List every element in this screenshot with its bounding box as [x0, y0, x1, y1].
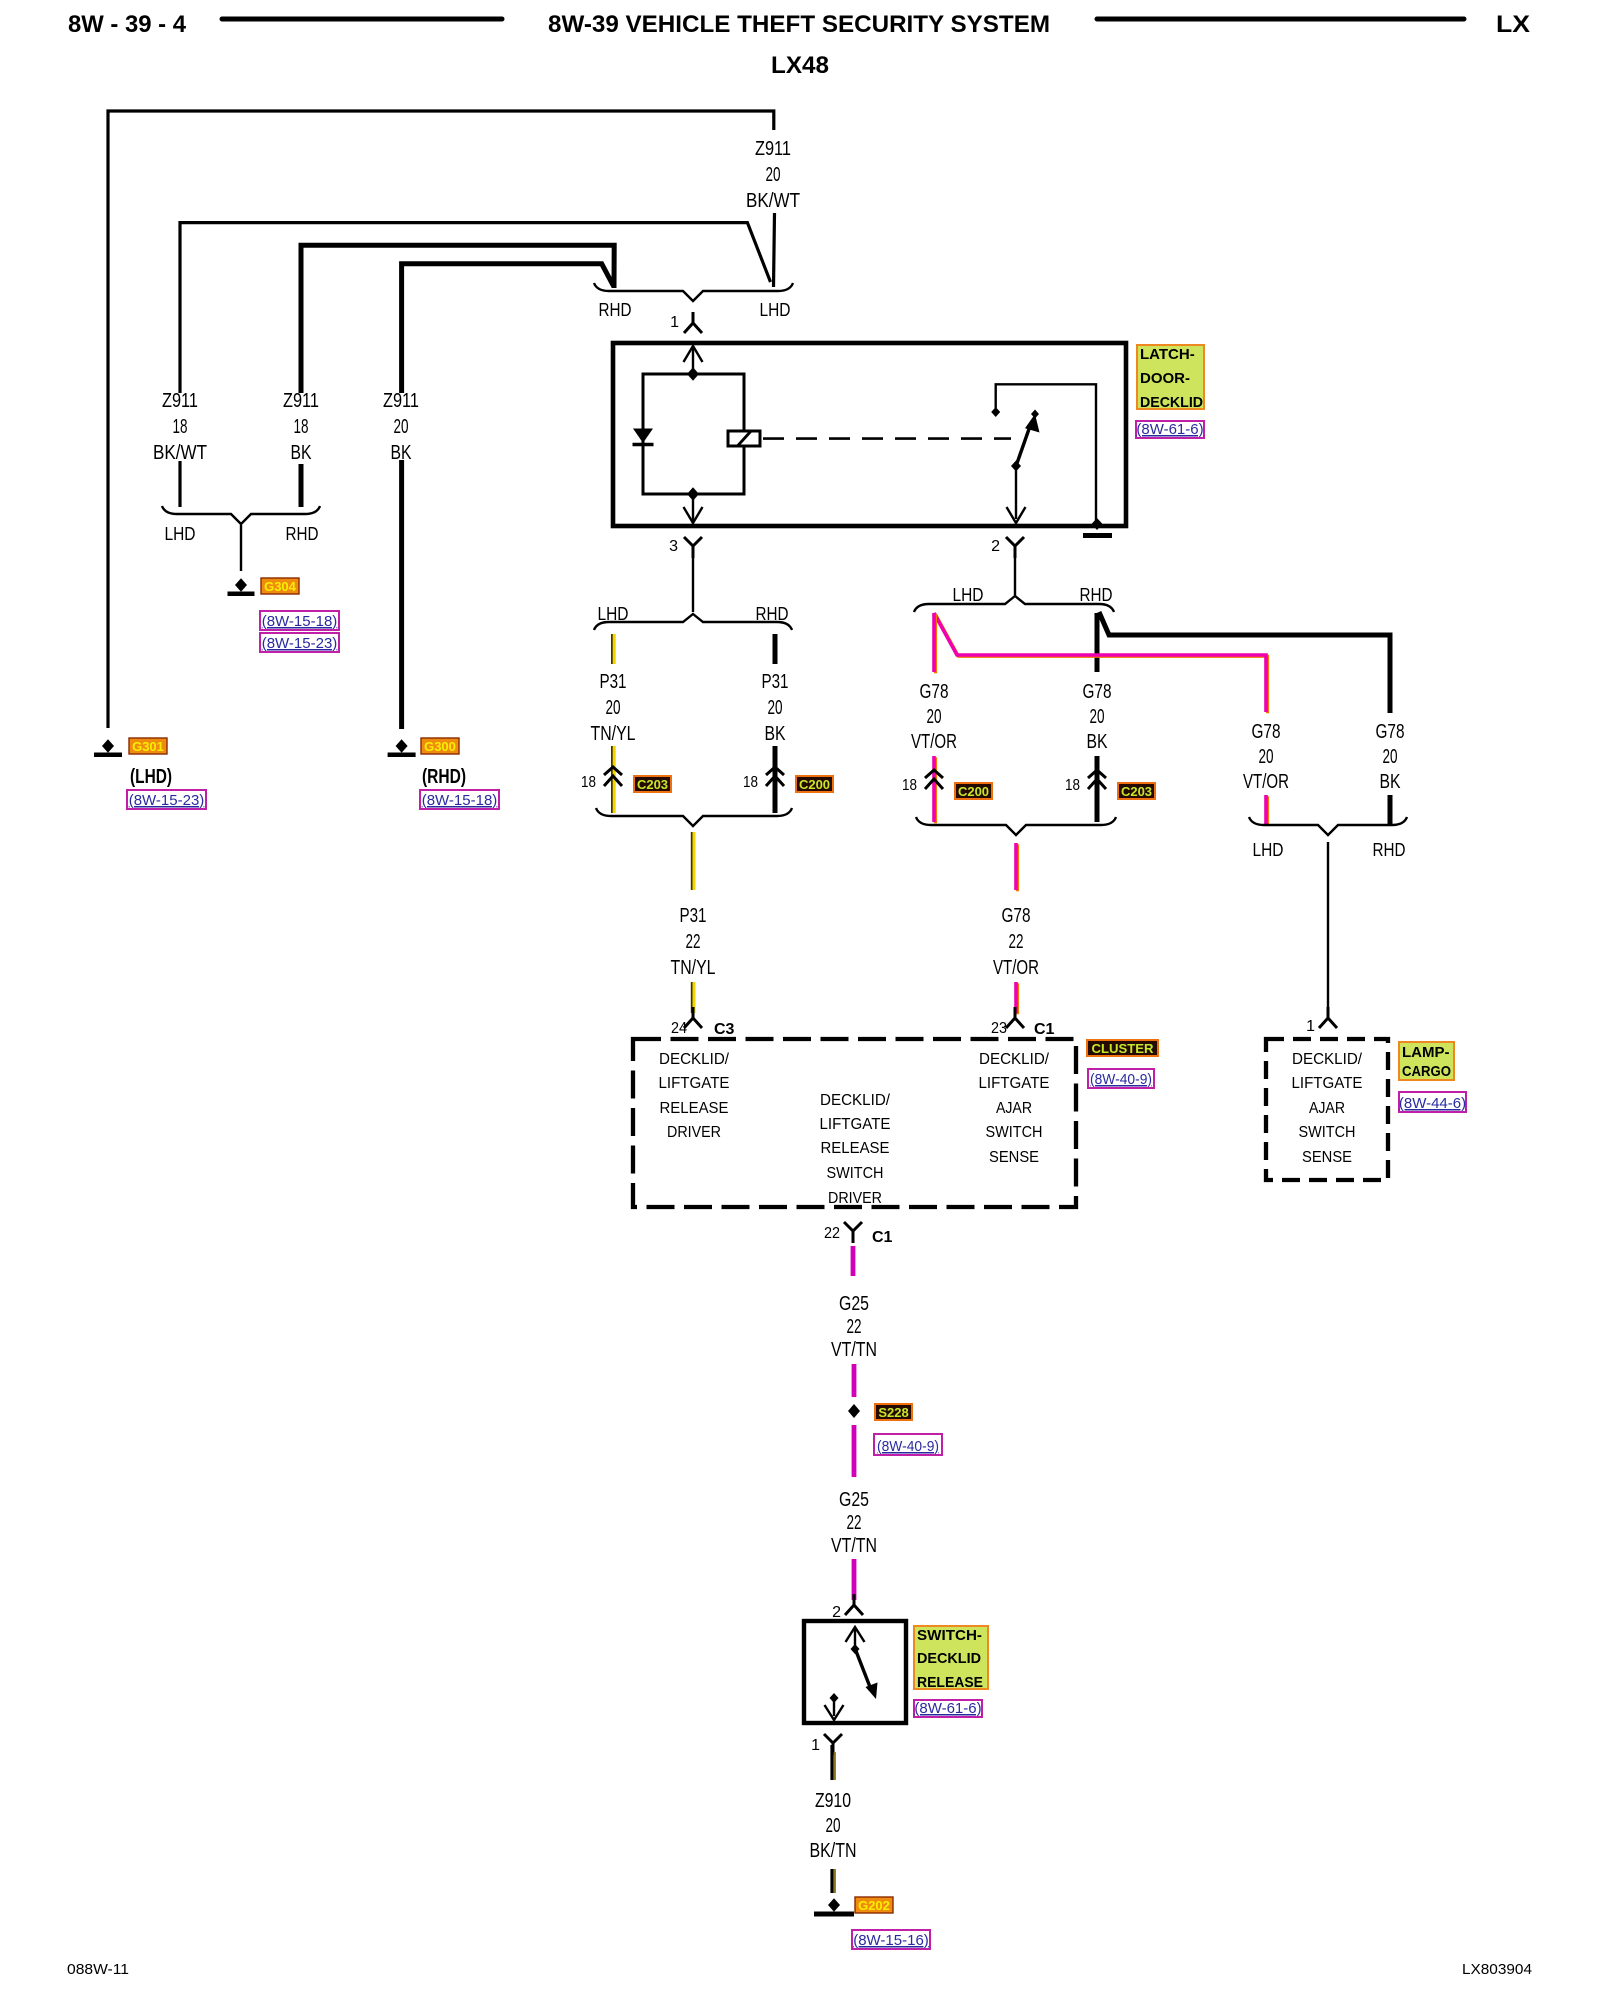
- svg-text:RELEASE: RELEASE: [917, 1674, 983, 1691]
- pin 23 connector C1 of cluster: [1006, 1007, 1024, 1028]
- diode (clamp) on loop left edge: [633, 429, 654, 445]
- svg-text:1: 1: [670, 314, 679, 331]
- bracket LHD/RHD split from pin 2: [914, 596, 1114, 612]
- svg-text:RELEASE: RELEASE: [660, 1100, 729, 1117]
- svg-text:G78: G78: [920, 681, 949, 703]
- svg-text:DECKLID/: DECKLID/: [820, 1092, 891, 1109]
- svg-text:P31: P31: [680, 905, 707, 927]
- wire G78 20 VT/OR stub to lamp bracket: [1266, 795, 1268, 825]
- svg-text:RHD: RHD: [1373, 840, 1406, 860]
- svg-text:Z911: Z911: [383, 390, 419, 412]
- relay switch movable arm: [1016, 410, 1040, 467]
- svg-text:20: 20: [1383, 746, 1398, 768]
- ref link 8W-15-18 (G304): [260, 611, 339, 630]
- wire G25 22 VT/TN segment 3: [852, 1425, 857, 1477]
- ref link 8W-15-23 (G304): [260, 633, 339, 652]
- svg-text:8W - 39 - 4: 8W - 39 - 4: [68, 11, 187, 38]
- svg-text:SENSE: SENSE: [989, 1149, 1039, 1166]
- in-line connector C203 chevron (BK): [1088, 770, 1106, 789]
- ref link 8W-44-6 (lamp): [1399, 1092, 1466, 1112]
- svg-text:BK: BK: [1380, 771, 1402, 793]
- svg-text:G25: G25: [839, 1293, 869, 1315]
- in-line connector C203 chevron (TN/YL): [604, 767, 622, 786]
- svg-text:(8W-15-23): (8W-15-23): [129, 792, 205, 809]
- svg-text:VT/TN: VT/TN: [831, 1339, 877, 1361]
- wire label G25 22 VT/TN (upper): [831, 1293, 877, 1361]
- switch SWITCH-DECKLID-RELEASE box: [804, 1621, 906, 1723]
- svg-text:RHD: RHD: [1080, 585, 1113, 605]
- svg-text:(8W-40-9): (8W-40-9): [1090, 1071, 1152, 1088]
- svg-text:Z911: Z911: [755, 138, 791, 160]
- svg-text:Z910: Z910: [815, 1790, 851, 1812]
- svg-text:(8W-15-18): (8W-15-18): [262, 613, 338, 630]
- pin 22 connector C1 below cluster: [844, 1222, 862, 1243]
- wire label G78 20 BK (lamp RHD): [1376, 721, 1405, 793]
- bracket merge LHD/RHD to G304: [162, 506, 320, 524]
- svg-text:SENSE: SENSE: [1302, 1149, 1352, 1166]
- wire label Z911 18 BK/WT (left column): [153, 390, 207, 464]
- svg-text:AJAR: AJAR: [1309, 1100, 1345, 1117]
- svg-text:DECKLID: DECKLID: [917, 1650, 981, 1667]
- svg-text:G78: G78: [1376, 721, 1405, 743]
- ref link 8W-15-16 (G202): [852, 1930, 930, 1949]
- splice S228: [848, 1404, 860, 1418]
- ref link 8W-61-6 (switch): [914, 1700, 982, 1717]
- relay pin3 internal down arrow: [684, 494, 703, 523]
- svg-text:TN/YL: TN/YL: [591, 723, 636, 745]
- svg-text:VT/OR: VT/OR: [1243, 771, 1289, 793]
- svg-text:C1: C1: [1034, 1021, 1055, 1038]
- wire G78 20 BK stub to lamp bracket: [1388, 795, 1393, 824]
- wire Z911 20 BK RHD (to G300) horizontal: [402, 264, 614, 393]
- connector label C200: [796, 776, 833, 792]
- svg-text:RHD: RHD: [756, 604, 789, 624]
- svg-text:C200: C200: [958, 784, 989, 799]
- wire label P31 20 BK: [762, 671, 789, 745]
- svg-text:LHD: LHD: [165, 524, 196, 544]
- svg-text:18: 18: [581, 774, 596, 791]
- ground label G202: [855, 1897, 893, 1913]
- svg-text:G202: G202: [858, 1898, 890, 1913]
- svg-text:SWITCH: SWITCH: [1299, 1124, 1356, 1141]
- svg-text:P31: P31: [762, 671, 789, 693]
- wire Z911 18 BK RHD (to G304) horizontal: [301, 245, 614, 393]
- relay coil/diode loop rectangle: [643, 374, 744, 494]
- wire Z910 20 BK/TN lower segment: [832, 1869, 835, 1893]
- svg-text:24: 24: [671, 1020, 687, 1037]
- svg-text:(8W-15-18): (8W-15-18): [422, 792, 498, 809]
- svg-text:DOOR-: DOOR-: [1140, 370, 1190, 387]
- svg-text:LHD: LHD: [598, 604, 629, 624]
- svg-text:3: 3: [669, 538, 678, 555]
- relay LATCH-DOOR-DECKLID box: [613, 343, 1126, 526]
- relay case ground bar: [1083, 533, 1112, 538]
- svg-text:20: 20: [826, 1815, 841, 1837]
- cargo lamp dashed box: [1266, 1039, 1388, 1180]
- svg-text:1: 1: [811, 1737, 820, 1754]
- svg-text:SWITCH-: SWITCH-: [917, 1627, 982, 1644]
- wire label P31 22 TN/YL: [671, 905, 716, 979]
- relay pin1 internal up arrow: [684, 346, 703, 374]
- wire Z911 20 BK/WT LHD (to G301) - top horizontal and left vertical: [108, 111, 774, 728]
- wire G25 22 VT/TN segment 1: [851, 1246, 856, 1276]
- svg-text:23: 23: [991, 1020, 1007, 1037]
- pin 1 connector of cargo lamp: [1319, 1007, 1337, 1028]
- cluster text decklid/liftgate ajar switch sense: [979, 1051, 1050, 1166]
- svg-text:20: 20: [1259, 746, 1274, 768]
- svg-text:(8W-61-6): (8W-61-6): [1136, 421, 1203, 438]
- svg-text:G304: G304: [264, 579, 297, 594]
- pin 3 connector of relay: [684, 537, 702, 558]
- svg-text:(RHD): (RHD): [422, 766, 466, 788]
- ground label G301: [129, 738, 167, 754]
- ground G300: [388, 739, 416, 757]
- cluster text decklid/liftgate release driver: [659, 1051, 730, 1141]
- svg-text:BK: BK: [1087, 731, 1109, 753]
- svg-text:G25: G25: [839, 1489, 869, 1511]
- connector label C200 (center): [955, 783, 992, 799]
- svg-text:RHD: RHD: [286, 524, 319, 544]
- bracket merge G78 wires to cluster: [916, 817, 1116, 835]
- component label LATCH-DOOR-DECKLID: [1137, 345, 1204, 411]
- pin 2 connector of decklid release switch: [845, 1594, 863, 1615]
- cluster text decklid/liftgate release switch driver: [820, 1092, 891, 1207]
- wire G78 20 VT/OR LHD branch: [934, 613, 1268, 713]
- svg-text:LIFTGATE: LIFTGATE: [1292, 1075, 1363, 1092]
- svg-text:20: 20: [766, 164, 781, 186]
- wire P31 20 TN/YL stub (LHD): [612, 634, 614, 664]
- wire pin3 to split bracket: [692, 558, 694, 612]
- svg-text:P31: P31: [600, 671, 627, 693]
- svg-text:DECKLID: DECKLID: [1140, 394, 1203, 411]
- svg-text:DRIVER: DRIVER: [667, 1124, 721, 1141]
- in-line connector C200 chevron (VT/OR): [925, 770, 943, 789]
- svg-text:(8W-15-23): (8W-15-23): [262, 635, 338, 652]
- wire label G78 20 VT/OR (lamp LHD): [1243, 721, 1289, 793]
- bracket RHD/LHD into relay pin 1: [594, 283, 793, 301]
- svg-text:BK: BK: [765, 723, 787, 745]
- svg-text:TN/YL: TN/YL: [671, 957, 716, 979]
- wire P31 20 TN/YL lower segment: [612, 746, 614, 813]
- ref link 8W-40-9 (cluster): [1088, 1069, 1154, 1088]
- ref link 8W-61-6 (latch): [1136, 421, 1204, 438]
- wire G78 20 BK segment to C203: [1095, 756, 1100, 822]
- svg-text:22: 22: [824, 1225, 840, 1242]
- wire label G78 22 VT/OR: [993, 905, 1039, 979]
- svg-text:1: 1: [1306, 1018, 1315, 1035]
- ref link 8W-15-18 (G300): [420, 790, 499, 809]
- svg-text:18: 18: [1065, 777, 1080, 794]
- svg-text:18: 18: [743, 774, 758, 791]
- wire Z911 18 BK/WT stub to G304 bracket: [178, 461, 181, 507]
- svg-text:BK/WT: BK/WT: [153, 442, 207, 464]
- svg-text:LIFTGATE: LIFTGATE: [659, 1075, 730, 1092]
- switch upper contact dot: [851, 1644, 860, 1654]
- relay internal junction top: [687, 367, 699, 381]
- svg-text:(8W-61-6): (8W-61-6): [914, 1700, 981, 1717]
- svg-text:20: 20: [768, 697, 783, 719]
- pin 24 connector C3 of cluster: [684, 1007, 702, 1028]
- wire G78 20 BK RHD branch (thick black): [1099, 612, 1390, 713]
- svg-text:VT/OR: VT/OR: [993, 957, 1039, 979]
- svg-text:20: 20: [606, 697, 621, 719]
- svg-text:S228: S228: [878, 1405, 908, 1420]
- svg-text:LX48: LX48: [771, 52, 829, 79]
- svg-text:(8W-40-9): (8W-40-9): [877, 1438, 939, 1455]
- svg-text:22: 22: [1009, 931, 1024, 953]
- svg-text:(8W-15-16): (8W-15-16): [853, 1932, 929, 1949]
- svg-text:22: 22: [847, 1512, 862, 1534]
- pin 2 connector of relay: [1006, 537, 1024, 558]
- relay coil symbol: [728, 431, 760, 447]
- svg-text:SWITCH: SWITCH: [827, 1165, 884, 1182]
- wire label Z910 20 BK/TN: [810, 1790, 857, 1862]
- svg-text:20: 20: [927, 706, 942, 728]
- wire Z911 20 BK vertical to G300: [399, 460, 404, 729]
- svg-text:DECKLID/: DECKLID/: [979, 1051, 1050, 1068]
- svg-text:LIFTGATE: LIFTGATE: [820, 1116, 891, 1133]
- wire G78 20 VT/OR center vertical: [934, 613, 936, 673]
- svg-text:LHD: LHD: [953, 585, 984, 605]
- relay internal junction bottom: [687, 487, 699, 501]
- svg-text:AJAR: AJAR: [996, 1100, 1032, 1117]
- relay actuation dashed link: [763, 437, 1011, 440]
- wire G25 22 VT/TN segment 4: [852, 1559, 857, 1600]
- bracket merge LHD/RHD to lamp: [1249, 817, 1407, 835]
- svg-text:(8W-44-6): (8W-44-6): [1399, 1095, 1466, 1112]
- ground G304: [228, 578, 255, 596]
- svg-text:DECKLID/: DECKLID/: [1292, 1051, 1363, 1068]
- wire G304 bracket stem: [240, 525, 242, 571]
- svg-text:C3: C3: [714, 1021, 735, 1038]
- svg-text:BK: BK: [291, 442, 313, 464]
- splice label S228: [875, 1404, 912, 1420]
- svg-text:G78: G78: [1002, 905, 1031, 927]
- svg-text:8W-39 VEHICLE THEFT SECURITY S: 8W-39 VEHICLE THEFT SECURITY SYSTEM: [548, 11, 1050, 38]
- wire lamp bracket to pin 1: [1327, 842, 1329, 1013]
- wire pin2 to split bracket: [1014, 558, 1016, 596]
- svg-text:CLUSTER: CLUSTER: [1092, 1041, 1155, 1056]
- svg-text:G301: G301: [132, 739, 164, 754]
- wire label P31 20 TN/YL: [591, 671, 636, 745]
- svg-text:RHD: RHD: [599, 300, 632, 320]
- ref link 8W-15-23 (G301): [127, 790, 206, 809]
- svg-text:LHD: LHD: [760, 300, 791, 320]
- svg-text:LX: LX: [1496, 11, 1530, 38]
- relay internal ground junction dot: [1092, 518, 1103, 530]
- svg-text:(LHD): (LHD): [130, 766, 172, 788]
- svg-text:BK/WT: BK/WT: [746, 190, 800, 212]
- connector label C203 (center): [1118, 783, 1155, 799]
- pin 1 connector of switch: [824, 1734, 842, 1755]
- svg-text:18: 18: [294, 416, 309, 438]
- wire label Z911 18 BK (second column): [283, 390, 319, 464]
- wire Z911 20 BK/WT segment from label to LHD bracket: [774, 213, 775, 287]
- cluster dashed box: [633, 1039, 1076, 1207]
- relay switch feed wire (top right): [996, 384, 1096, 524]
- wire G78 20 VT/OR segment to C200: [934, 756, 936, 823]
- ground label G300: [421, 738, 459, 754]
- wire G78 22 VT/OR lower segment: [1016, 982, 1018, 1014]
- component label CLUSTER: [1087, 1040, 1158, 1056]
- switch internal bottom arrow: [825, 1700, 844, 1720]
- component label LAMP-CARGO: [1399, 1042, 1454, 1080]
- svg-text:C200: C200: [799, 777, 830, 792]
- svg-text:G78: G78: [1083, 681, 1112, 703]
- wire G78 22 VT/OR to cluster: [1016, 843, 1018, 891]
- svg-text:G300: G300: [424, 739, 456, 754]
- svg-text:LX803904: LX803904: [1462, 1961, 1532, 1978]
- switch lower contact dot: [830, 1693, 839, 1703]
- wire label G78 20 BK (center): [1083, 681, 1112, 753]
- component label SWITCH-DECKLID-RELEASE: [914, 1626, 988, 1691]
- wire label G78 20 VT/OR (center left): [911, 681, 957, 753]
- header rule left: [222, 17, 502, 22]
- in-line connector C200 chevron (BK): [766, 767, 784, 786]
- wire Z911 18 BK stub to G304 bracket: [299, 464, 304, 507]
- wire P31 20 BK stub (RHD): [773, 634, 778, 664]
- relay switch fixed contact dot: [991, 407, 1000, 417]
- svg-text:2: 2: [991, 538, 1000, 555]
- svg-text:22: 22: [686, 931, 701, 953]
- wire P31 22 TN/YL lower segment: [692, 982, 694, 1013]
- wire label Z911 20 BK/WT (top right): [746, 138, 800, 212]
- connector label C203: [634, 776, 671, 792]
- svg-text:VT/OR: VT/OR: [911, 731, 957, 753]
- ref link 8W-40-9 (S228): [874, 1434, 942, 1455]
- wire P31 20 BK lower segment: [773, 746, 778, 813]
- pin 1 connector of relay: [684, 312, 702, 333]
- svg-text:CARGO: CARGO: [1402, 1063, 1451, 1080]
- svg-text:G78: G78: [1252, 721, 1281, 743]
- wire G78 20 BK center vertical: [1095, 613, 1100, 672]
- svg-text:Z911: Z911: [283, 390, 319, 412]
- wire label Z911 20 BK (third column): [383, 390, 419, 464]
- svg-text:18: 18: [902, 777, 917, 794]
- bracket merge P31 wires: [596, 808, 792, 826]
- lamp text decklid/liftgate ajar switch sense: [1292, 1051, 1363, 1166]
- svg-text:SWITCH: SWITCH: [986, 1124, 1043, 1141]
- svg-text:Z911: Z911: [162, 390, 198, 412]
- wire label G25 22 VT/TN (lower): [831, 1489, 877, 1557]
- wire Z911 18 BK/WT LHD (to G304) horizontal: [180, 223, 771, 393]
- bracket LHD/RHD split from pin 3: [594, 614, 792, 630]
- wire G25 22 VT/TN segment 2: [852, 1364, 857, 1397]
- svg-text:LHD: LHD: [1253, 840, 1284, 860]
- svg-text:RELEASE: RELEASE: [821, 1140, 890, 1157]
- svg-text:VT/TN: VT/TN: [831, 1535, 877, 1557]
- svg-text:C1: C1: [872, 1229, 893, 1246]
- wire Z910 20 BK/TN upper segment: [832, 1745, 835, 1780]
- switch internal top arrow: [846, 1627, 865, 1646]
- ground G301: [94, 739, 122, 757]
- svg-text:20: 20: [394, 416, 409, 438]
- wire P31 22 TN/YL to cluster: [692, 832, 694, 890]
- relay pin2 internal down arrow: [1007, 468, 1026, 523]
- header rule right: [1097, 17, 1464, 22]
- svg-text:LATCH-: LATCH-: [1140, 346, 1195, 363]
- svg-text:LIFTGATE: LIFTGATE: [979, 1075, 1050, 1092]
- svg-text:088W-11: 088W-11: [67, 1961, 129, 1978]
- svg-text:C203: C203: [1121, 784, 1152, 799]
- relay switch pivot dot: [1011, 461, 1021, 472]
- ground label G304: [261, 578, 299, 594]
- switch movable arm: [856, 1651, 878, 1699]
- svg-text:2: 2: [832, 1604, 841, 1621]
- svg-text:LAMP-: LAMP-: [1402, 1044, 1450, 1061]
- svg-text:20: 20: [1090, 706, 1105, 728]
- svg-text:22: 22: [847, 1316, 862, 1338]
- svg-text:DRIVER: DRIVER: [828, 1190, 882, 1207]
- ground G202: [814, 1898, 854, 1916]
- svg-text:BK/TN: BK/TN: [810, 1840, 857, 1862]
- svg-text:C203: C203: [637, 777, 668, 792]
- svg-text:18: 18: [173, 416, 188, 438]
- svg-text:DECKLID/: DECKLID/: [659, 1051, 730, 1068]
